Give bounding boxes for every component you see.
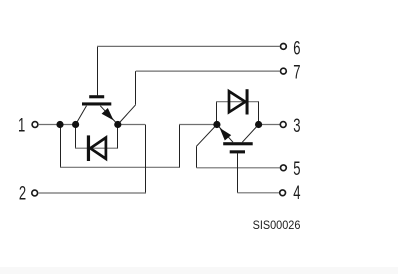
svg-text:3: 3 [293,114,300,136]
wire Q1 emitter leg (diagonal) [100,106,118,125]
junction node3 [114,121,121,128]
diode D1 triangle [90,138,106,159]
wire nodeR1 to pin5 (diagonal) [197,125,217,147]
junction node2 [72,121,79,128]
IGBT Q2 emitter arrow [220,128,232,141]
svg-text:SIS00026: SIS00026 [253,218,301,232]
wire diode D2 right drop (vertical) [258,102,260,125]
wire Q2 emitter leg (diagonal) [217,125,233,143]
wire to pin4 (horizontal) [237,192,279,194]
svg-text:1: 1 [18,114,25,136]
bottom background strip [0,267,398,274]
junction node1 [56,121,63,128]
wire to pin5 (horizontal) [197,167,280,169]
wire to pin6 (horizontal) [97,45,280,47]
wire gate Q2 drop (vertical) [237,153,239,193]
diode D2 cathode bar [246,89,249,114]
IGBT Q2 gate bar [230,150,245,153]
pin 2 terminal [32,190,38,196]
wire nodeR2 to pin3 (horizontal) [259,124,281,126]
IGBT Q1 channel bar [82,102,111,105]
wire diode D1 row (horizontal) [75,147,118,149]
pin 1 terminal [32,122,38,128]
wire pin1 to node2 (horizontal) [39,124,76,126]
pin 3 terminal [280,122,286,128]
wire riser to nodeR1 (horizontal) [179,124,217,126]
svg-text:6: 6 [293,37,300,59]
diode D2 triangle [229,91,245,112]
wire pin7 riser (vertical) [135,71,137,105]
wire to pin7 (horizontal) [136,70,280,72]
svg-text:7: 7 [293,61,300,83]
svg-text:2: 2 [19,182,26,204]
wire riser up (vertical) [179,125,181,168]
IGBT Q2 channel bar [223,142,253,145]
wire diode D2 row (horizontal) [216,101,259,103]
wire node1 run to riser (horizontal) [60,166,180,168]
svg-text:5: 5 [293,157,300,179]
svg-text:4: 4 [293,181,300,203]
junction nodeR1 [213,121,220,128]
wire Q1 collector leg (diagonal) [76,106,87,125]
wire node3 to pin7 (diagonal) [118,105,136,125]
wire Q2 collector leg (diagonal) [242,125,258,143]
wire node3 right (horizontal) [118,124,145,126]
pin 7 terminal [281,68,287,74]
wire gate Q1 riser (vertical) [97,46,99,95]
wire node1 drop (vertical) [60,125,62,168]
wire diode D1 cathode rise (vertical) [117,125,119,149]
wire to pin2 (horizontal) [39,192,146,194]
IGBT Q1 emitter arrow [102,108,114,120]
pin 5 terminal [281,165,287,171]
wire node2 drop to diode D1 (vertical) [75,125,77,149]
pin 6 terminal [281,44,287,50]
IGBT Q1 gate bar [89,95,104,98]
pin 4 terminal [280,190,286,196]
wire pin5 drop (vertical) [196,146,198,168]
wire diode D2 left drop (vertical) [216,102,218,125]
junction nodeR2 [255,121,262,128]
diode D1 cathode bar [87,135,90,161]
wire pin2 riser (vertical) [145,125,147,194]
